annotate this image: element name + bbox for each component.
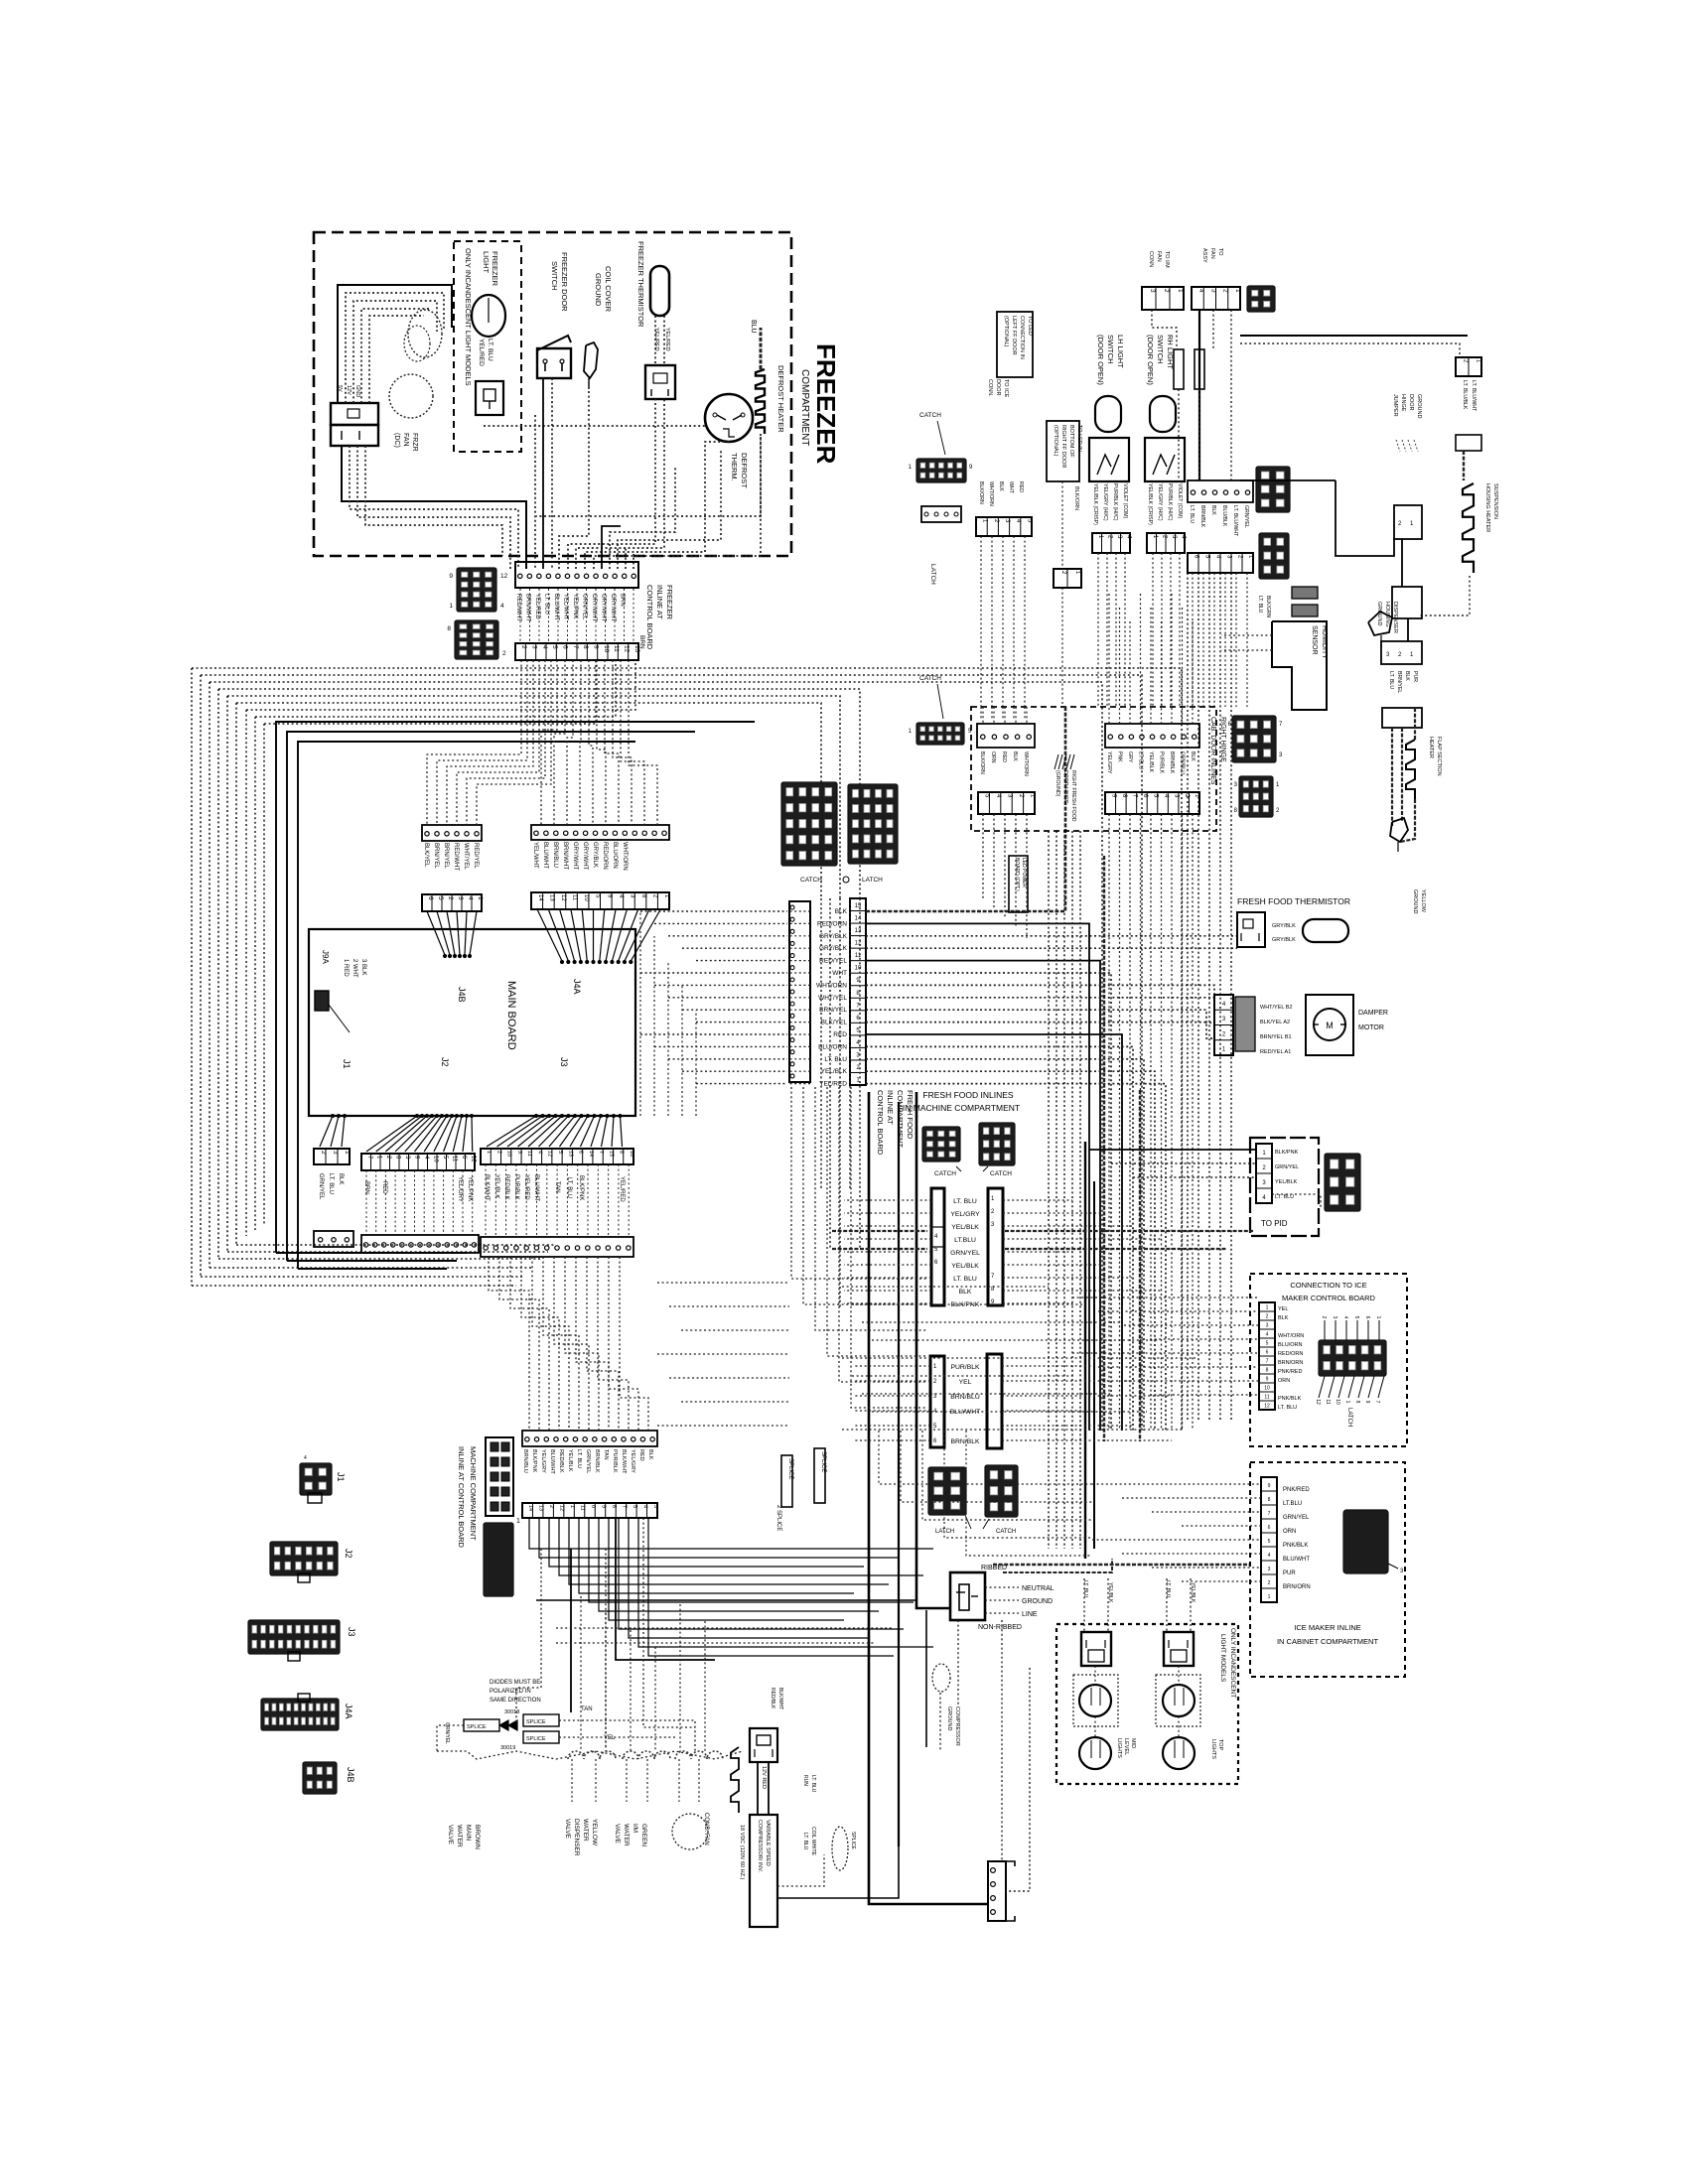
svg-text:WHT/ORN: WHT/ORN — [622, 842, 628, 871]
machine compartment inline dark blob — [484, 1523, 513, 1596]
svg-text:BLK/YEL A2: BLK/YEL A2 — [1260, 1020, 1290, 1025]
wires from switches down — [1097, 553, 1099, 707]
svg-text:J9A: J9A — [321, 950, 330, 964]
svg-text:FRZR: FRZR — [411, 433, 418, 452]
svg-text:5: 5 — [1268, 1539, 1271, 1545]
ground rings dotted tassel — [1396, 440, 1400, 452]
wires inverter to right — [777, 1854, 824, 1886]
svg-text:J4A: J4A — [344, 1704, 353, 1719]
right hinge dark grid lower — [1239, 776, 1273, 817]
svg-text:BLK: BLK — [1278, 1315, 1289, 1321]
dark connector grid top right — [1247, 286, 1275, 312]
svg-text:BLK/ORN: BLK/ORN — [979, 751, 985, 774]
svg-text:YEL/BLK: YEL/BLK — [1107, 1582, 1113, 1603]
wires to valves horizontal zigzag bus — [437, 1751, 743, 1759]
svg-text:BRN/YEL: BRN/YEL — [819, 1007, 847, 1014]
cond fan dotted circle — [672, 1814, 708, 1849]
svg-text:LEFT FF DOOR: LEFT FF DOOR — [1011, 316, 1017, 355]
svg-text:LH LIGHT: LH LIGHT — [1116, 335, 1125, 368]
freezer door latch connector — [921, 506, 961, 522]
svg-text:LT. BLU: LT. BLU — [1138, 751, 1144, 769]
svg-text:4: 4 — [1266, 1331, 1269, 1337]
hatched leads to flap heater — [1391, 728, 1393, 826]
svg-text:18 VDC (120V 60 HZ.): 18 VDC (120V 60 HZ.) — [739, 1825, 745, 1879]
svg-text:WATER: WATER — [623, 1824, 630, 1846]
svg-text:BRN/YEL: BRN/YEL — [433, 843, 439, 869]
svg-text:LIGHTS: LIGHTS — [1116, 1738, 1122, 1758]
svg-text:RED/ORN: RED/ORN — [602, 842, 608, 870]
catch connector grid near power — [985, 1465, 1018, 1517]
svg-text:TO I/M: TO I/M — [1164, 251, 1170, 268]
ribbed line to ice maker box — [993, 1564, 1249, 1566]
svg-text:WHT/YEL: WHT/YEL — [463, 843, 469, 870]
yellow ground clamp bottom right — [1390, 818, 1408, 842]
svg-text:YEL/WHT: YEL/WHT — [532, 842, 538, 869]
right column small connector boxes — [1394, 505, 1422, 539]
svg-text:ORN: ORN — [1278, 1378, 1290, 1384]
svg-text:VIOLET (COM): VIOLET (COM) — [1122, 483, 1128, 519]
svg-text:J2: J2 — [440, 1057, 450, 1067]
J4A pin strip — [531, 825, 669, 840]
svg-text:GRN/YEL: GRN/YEL — [950, 1250, 980, 1257]
ff inlines catch connector grid B — [979, 1123, 1015, 1165]
diode splice assembly — [464, 1719, 499, 1731]
svg-text:MACHINE COMPARTMENT: MACHINE COMPARTMENT — [469, 1446, 478, 1541]
svg-text:5: 5 — [437, 896, 444, 900]
5 pin strip below — [976, 517, 1032, 536]
svg-text:FAN: FAN — [1156, 251, 1162, 262]
svg-text:PUR/BLK: PUR/BLK — [950, 1364, 980, 1371]
svg-text:POLARIZED IN: POLARIZED IN — [490, 1689, 531, 1695]
svg-text:RED: RED — [638, 1449, 644, 1461]
left fresh food door hinge strip lower — [1188, 553, 1253, 573]
svg-text:BRN/BLK: BRN/BLK — [1169, 751, 1175, 774]
svg-text:BOARD (OPT.): BOARD (OPT.) — [1014, 858, 1020, 891]
svg-text:BLK: BLK — [1190, 751, 1196, 761]
machine inline horizontal strip — [522, 1431, 657, 1446]
svg-text:BRN/YEL: BRN/YEL — [1396, 671, 1402, 693]
svg-text:13: 13 — [548, 894, 554, 901]
svg-text:J1: J1 — [342, 1059, 352, 1069]
wires machine inline strip down fanout — [529, 1518, 933, 1549]
wire from splices left — [437, 1725, 464, 1751]
fan winding squiggle — [408, 310, 442, 357]
svg-text:LIGHT: LIGHT — [482, 251, 491, 274]
machine inline lower strip pair right — [987, 1354, 1002, 1448]
left fresh food door hinge strip upper — [1188, 480, 1253, 502]
svg-text:RIGHT FRESH FOOD: RIGHT FRESH FOOD — [1070, 770, 1076, 822]
damper motor box — [1306, 995, 1353, 1055]
svg-text:8: 8 — [1268, 1497, 1271, 1503]
ff inline strip pair left — [931, 1188, 944, 1305]
svg-text:COIL WHITE: COIL WHITE — [810, 1827, 816, 1856]
svg-text:JUMPER: JUMPER — [1392, 394, 1398, 417]
upper bulb left dotted box — [1073, 1675, 1118, 1726]
wires freezer inline to J4B/J4A strips — [427, 660, 521, 825]
svg-text:9: 9 — [449, 573, 453, 580]
svg-text:J4A: J4A — [572, 979, 582, 995]
svg-text:7: 7 — [1266, 1358, 1269, 1364]
svg-text:HINGE: HINGE — [1400, 394, 1406, 412]
svg-text:2: 2 — [1163, 289, 1170, 293]
connector J4A grid — [261, 1699, 339, 1730]
svg-text:GRN/YEL: GRN/YEL — [585, 1449, 591, 1473]
svg-text:YEL/BLK (CRISP): YEL/BLK (CRISP) — [1147, 483, 1153, 525]
svg-text:FRESH FOOD: FRESH FOOD — [906, 1090, 914, 1140]
hatched connectors pair above humidity — [1292, 587, 1318, 599]
freezer inline pin column wires — [519, 589, 521, 643]
svg-text:GREEN: GREEN — [640, 1824, 647, 1846]
svg-text:PUR: PUR — [1283, 1570, 1296, 1576]
freezer inline at control board pin strip — [515, 562, 638, 588]
suspension housing heater leads — [1463, 451, 1465, 480]
wire web diagonal steps lower center — [879, 1431, 1092, 1484]
svg-text:1: 1 — [449, 603, 453, 610]
svg-text:FREEZER DOOR: FREEZER DOOR — [560, 252, 569, 312]
svg-text:DOOR: DOOR — [995, 379, 1001, 396]
svg-text:CATCH: CATCH — [800, 877, 822, 884]
LH switch pin strip — [1092, 533, 1130, 553]
svg-text:GRN/YEL: GRN/YEL — [1283, 1515, 1310, 1521]
svg-text:TOP: TOP — [1217, 1739, 1223, 1751]
svg-text:RIGHT FF DOOR: RIGHT FF DOOR — [1060, 425, 1066, 468]
right column lower connector box — [1382, 708, 1422, 728]
second freezer catch connector — [916, 723, 964, 745]
svg-text:CAB. DOOR INLINES: CAB. DOOR INLINES — [1209, 717, 1216, 785]
svg-text:YEL/GRY: YEL/GRY — [1106, 751, 1112, 774]
freezer fan motor connector FRZR FAN (DC) — [331, 403, 378, 425]
svg-text:BLK/ORN: BLK/ORN — [1073, 486, 1079, 510]
extra freezer harness drops — [610, 467, 675, 569]
svg-text:BLU/WHT: BLU/WHT — [549, 1449, 555, 1474]
J3 lower pin strip — [481, 1237, 633, 1257]
J4A numbered strip — [531, 892, 669, 909]
svg-text:CONN: CONN — [1148, 251, 1154, 267]
svg-text:VALVE: VALVE — [564, 1819, 571, 1840]
svg-text:CATCH: CATCH — [934, 1170, 956, 1177]
svg-text:LATCH: LATCH — [862, 877, 883, 884]
svg-text:SPLICE: SPLICE — [787, 1458, 793, 1479]
svg-text:11: 11 — [572, 894, 578, 901]
svg-text:1: 1 — [344, 1151, 351, 1155]
wire to lt blu connector top right — [1240, 335, 1468, 337]
svg-text:11: 11 — [1325, 1399, 1331, 1404]
svg-text:COMPRESSOR/ INV.: COMPRESSOR/ INV. — [757, 1820, 763, 1872]
2x3 dark grid left door — [1256, 467, 1290, 512]
svg-text:WATER: WATER — [582, 1819, 589, 1842]
svg-text:FREEZER: FREEZER — [811, 343, 841, 465]
svg-text:8: 8 — [1266, 1367, 1269, 1373]
trunk verticals right of center going down — [1187, 573, 1189, 1420]
J4A fan-out wires to board — [537, 909, 562, 961]
svg-text:5: 5 — [1266, 1340, 1269, 1346]
svg-text:SPLICE: SPLICE — [526, 1719, 546, 1725]
svg-text:9: 9 — [593, 645, 600, 649]
svg-text:HOUSING: HOUSING — [1384, 602, 1390, 627]
J2 numbered strip — [361, 1154, 475, 1170]
svg-text:ASSY: ASSY — [1201, 248, 1207, 263]
freezer thermistor connector — [645, 365, 675, 399]
main board outline — [309, 929, 635, 1116]
svg-text:PNK/RED: PNK/RED — [1278, 1369, 1302, 1375]
svg-text:BLK/YEL: BLK/YEL — [821, 1020, 848, 1026]
svg-text:WHT: WHT — [1008, 481, 1014, 494]
svg-text:LATCH: LATCH — [1346, 1408, 1352, 1427]
svg-text:PNK: PNK — [1117, 751, 1123, 762]
svg-text:FRESH FOOD THERMISTOR: FRESH FOOD THERMISTOR — [1237, 896, 1350, 906]
svg-text:SPLICE: SPLICE — [820, 1451, 826, 1472]
TO LED CONNECTION box — [997, 312, 1033, 377]
J3 numbered strip — [481, 1149, 633, 1164]
svg-text:LEVEL: LEVEL — [1123, 1738, 1129, 1755]
svg-text:12: 12 — [470, 1156, 476, 1162]
svg-text:FREEZER: FREEZER — [491, 251, 499, 287]
svg-text:12V: 12V — [346, 385, 352, 395]
compressor plug connector — [750, 1728, 777, 1762]
svg-text:8: 8 — [447, 625, 451, 632]
svg-text:WHT/ORN: WHT/ORN — [1278, 1333, 1304, 1339]
svg-text:YEL/BLK (CRISP): YEL/BLK (CRISP) — [1092, 483, 1098, 525]
wire defrost heater bottom lead — [536, 434, 761, 516]
J4B numbered strip — [422, 894, 482, 911]
power cord connector — [950, 1572, 985, 1620]
svg-text:GRY/BLK: GRY/BLK — [819, 945, 848, 952]
svg-text:PUR/BLK: PUR/BLK — [1159, 751, 1165, 774]
svg-text:MAKER CONTROL BOARD: MAKER CONTROL BOARD — [1282, 1294, 1375, 1302]
humidity sensor box — [1272, 621, 1327, 710]
svg-text:GRN/YEL: GRN/YEL — [444, 1722, 450, 1744]
label GROUND — [985, 1599, 1019, 1601]
svg-text:TAN: TAN — [581, 1706, 593, 1712]
wires power area down — [1001, 1620, 1003, 1861]
svg-text:1: 1 — [516, 1518, 520, 1525]
svg-text:1: 1 — [1268, 1594, 1271, 1600]
suspension heater connector — [1456, 435, 1481, 451]
wires into ice maker connection from left — [1072, 1297, 1259, 1298]
connection to ice maker control board dashed box — [1250, 1274, 1407, 1446]
svg-text:1: 1 — [477, 896, 484, 900]
svg-text:BRN/BLU: BRN/BLU — [552, 842, 558, 868]
svg-text:BLU/WHT: BLU/WHT — [542, 842, 548, 869]
svg-text:2: 2 — [447, 896, 454, 900]
svg-text:YEL/BLK: YEL/BLK — [493, 1174, 499, 1198]
svg-text:2: 2 — [1266, 1313, 1269, 1319]
LH light switch body — [1089, 438, 1129, 481]
svg-text:GRY/WHT: GRY/WHT — [582, 842, 588, 871]
svg-text:6: 6 — [1268, 1525, 1271, 1531]
svg-text:J2: J2 — [344, 1549, 353, 1559]
wires into ff inline strips — [844, 1199, 931, 1201]
svg-text:PUR: PUR — [1412, 671, 1418, 682]
right hinge left strip upper — [977, 724, 1035, 748]
svg-text:LT. BLU: LT. BLU — [576, 1449, 582, 1468]
svg-text:10: 10 — [855, 966, 862, 972]
svg-text:1: 1 — [1234, 289, 1241, 293]
svg-text:I/M: I/M — [632, 1824, 638, 1833]
ice maker connection strip — [1259, 1302, 1275, 1410]
connector 2 1 top right — [1456, 357, 1481, 376]
svg-text:3: 3 — [652, 1505, 658, 1508]
LED power board optional box — [1009, 856, 1028, 912]
J1 fan-out from board bottom — [320, 1116, 333, 1147]
svg-text:BLK/GRN: BLK/GRN — [1265, 596, 1271, 617]
svg-text:10: 10 — [603, 645, 610, 653]
TO PID strip — [1256, 1144, 1272, 1203]
svg-text:WATER: WATER — [456, 1825, 463, 1847]
J3 fan-out from board bottom — [487, 1116, 536, 1147]
svg-text:GROUND: GROUND — [1022, 1598, 1053, 1605]
dispenser housing ground clamp — [1368, 612, 1392, 635]
svg-text:3: 3 — [1332, 1316, 1337, 1319]
svg-text:10: 10 — [1335, 1399, 1340, 1405]
lights internal wires — [1094, 1666, 1096, 1685]
svg-text:8: 8 — [582, 645, 589, 649]
svg-text:6: 6 — [427, 896, 434, 900]
svg-text:3 BLK: 3 BLK — [360, 959, 366, 975]
svg-text:LT.BLU: LT.BLU — [1283, 1501, 1302, 1507]
svg-text:J4B: J4B — [346, 1767, 355, 1783]
svg-text:LT. BLU: LT. BLU — [328, 1173, 334, 1194]
upper bulb left — [1079, 1685, 1111, 1716]
svg-text:VALVE: VALVE — [614, 1824, 621, 1844]
svg-text:12: 12 — [1264, 1403, 1270, 1409]
svg-text:LT. BLU: LT. BLU — [1275, 1194, 1294, 1200]
svg-text:GRY/BLK: GRY/BLK — [1272, 923, 1296, 929]
lights dashed box only incandescent — [1056, 1624, 1238, 1784]
connector J3 grid — [248, 1620, 340, 1654]
svg-text:GRN/BLU: GRN/BLU — [1180, 751, 1186, 774]
label NEUTRAL — [985, 1586, 1019, 1588]
svg-text:YEL/BLK: YEL/BLK — [1275, 1179, 1298, 1185]
coil cover ground clamp — [584, 342, 598, 378]
right fresh food door hinge ground — [1064, 707, 1067, 752]
svg-text:DOOR HINGE: DOOR HINGE — [1062, 770, 1068, 804]
svg-text:LT. BLU: LT. BLU — [953, 1198, 977, 1205]
svg-text:YEL/RED: YEL/RED — [534, 594, 540, 619]
wire defrost therm to light dotted — [484, 425, 705, 427]
J4B fan-out wires to board — [427, 911, 445, 955]
machine inline lower strip pair left — [930, 1356, 944, 1447]
svg-text:LT. BLU: LT. BLU — [953, 1276, 977, 1283]
svg-text:GRN/YEL: GRN/YEL — [318, 1173, 324, 1200]
svg-text:NEUTRAL: NEUTRAL — [1022, 1585, 1055, 1592]
svg-text:BRN/BLK: BRN/BLK — [594, 1449, 600, 1473]
svg-text:YEL/GRY: YEL/GRY — [540, 1449, 546, 1473]
wire dotted down to connector — [1006, 1668, 1030, 1891]
svg-text:BLK/PNK: BLK/PNK — [1275, 1150, 1299, 1156]
wires into lights box — [1083, 1578, 1085, 1632]
svg-text:1: 1 — [1177, 289, 1184, 293]
freezer loop wires lower nest — [342, 446, 526, 569]
svg-text:GRY: GRY — [1127, 751, 1133, 763]
svg-text:COMPARTMENT: COMPARTMENT — [896, 1090, 905, 1148]
valve coil row — [568, 1751, 616, 1759]
J2 label column wires — [365, 1170, 367, 1235]
svg-text:SENSOR: SENSOR — [1311, 625, 1318, 655]
svg-text:CONNECTION IN: CONNECTION IN — [1019, 316, 1025, 359]
wire compressor connector down to inverter — [757, 1762, 759, 1815]
label LINE — [985, 1612, 1019, 1614]
svg-text:SUSPENSION: SUSPENSION — [1492, 483, 1498, 519]
svg-text:LT. BLU/WHT: LT. BLU/WHT — [1471, 380, 1477, 412]
svg-text:LT. BLU/BLK: LT. BLU/BLK — [1462, 380, 1468, 410]
left harness nested loop wires — [192, 668, 1182, 1431]
J4B pin strip — [422, 825, 482, 841]
svg-text:YELLOW: YELLOW — [1420, 889, 1426, 913]
connector 4 3 2 1 to fan assy — [1192, 287, 1240, 310]
upper bulb right — [1163, 1685, 1195, 1716]
svg-text:HOUSING HEATER: HOUSING HEATER — [1484, 483, 1490, 532]
svg-text:7: 7 — [572, 645, 579, 649]
svg-text:VARIABLE SPEED: VARIABLE SPEED — [765, 1820, 771, 1866]
svg-text:GRN/YEL: GRN/YEL — [1275, 1164, 1299, 1170]
svg-text:BLK/ORN: BLK/ORN — [978, 481, 984, 504]
svg-text:RED/ORN: RED/ORN — [1278, 1351, 1303, 1357]
svg-text:RED: RED — [1018, 481, 1024, 492]
svg-text:10: 10 — [1264, 1385, 1270, 1391]
wires between right column boxes — [1401, 539, 1403, 587]
ff inlines catch connector grid A — [922, 1127, 960, 1161]
svg-text:BLK: BLK — [1012, 751, 1018, 761]
svg-text:INLINE AT: INLINE AT — [886, 1090, 895, 1125]
svg-text:CATCH: CATCH — [996, 1529, 1016, 1535]
svg-text:BLU/ORN: BLU/ORN — [612, 842, 618, 869]
svg-text:2 WHT: 2 WHT — [352, 959, 357, 978]
svg-text:FREEZER THERMISTOR: FREEZER THERMISTOR — [636, 241, 645, 328]
svg-text:FLAP SECTION: FLAP SECTION — [1436, 737, 1442, 776]
svg-text:CATCH: CATCH — [919, 675, 941, 682]
machine inline numbered strip — [522, 1503, 657, 1518]
svg-text:12: 12 — [560, 894, 566, 901]
svg-text:3: 3 — [531, 645, 538, 649]
svg-text:11: 11 — [613, 645, 620, 652]
small inline connectors pair — [1174, 349, 1184, 389]
svg-text:WHT/ORN: WHT/ORN — [988, 481, 994, 506]
svg-text:SWITCH: SWITCH — [1106, 335, 1115, 364]
svg-text:BLK/WHT: BLK/WHT — [777, 1688, 783, 1709]
svg-text:YEL/BLK: YEL/BLK — [951, 1224, 979, 1231]
svg-text:LT. BLU/WHT: LT. BLU/WHT — [1232, 505, 1238, 537]
svg-text:RIGHT HINGE: RIGHT HINGE — [1219, 717, 1226, 762]
svg-text:4: 4 — [541, 645, 548, 649]
svg-text:LT. BLU: LT. BLU — [1189, 505, 1195, 523]
wires freezer components down to inline connector — [534, 415, 536, 569]
wires from 5 pin strip down — [980, 536, 982, 707]
svg-text:SPLICE: SPLICE — [850, 1832, 856, 1849]
center trunk vertical wires — [820, 898, 822, 1188]
svg-text:12: 12 — [1315, 1399, 1321, 1405]
svg-text:YEL/GRY (HI/C): YEL/GRY (HI/C) — [1157, 483, 1163, 521]
svg-text:LINE: LINE — [1022, 1611, 1038, 1618]
freezer door switch body — [537, 348, 571, 378]
svg-text:LT. BLU: LT. BLU — [1257, 596, 1263, 614]
svg-text:SPLICE: SPLICE — [526, 1736, 546, 1742]
RH light switch body — [1145, 438, 1185, 481]
TO LED bottom right box — [1047, 421, 1079, 481]
svg-text:MID: MID — [1130, 1738, 1136, 1748]
svg-text:30018: 30018 — [504, 1709, 519, 1715]
freezer thermistor capsule — [650, 266, 669, 316]
svg-text:3: 3 — [457, 896, 464, 900]
svg-text:RED: RED — [381, 1181, 387, 1194]
svg-text:BRN/YEL: BRN/YEL — [443, 843, 449, 869]
freezer door switch lever — [537, 336, 571, 350]
svg-text:COMPRESSOR: COMPRESSOR — [954, 1706, 960, 1746]
freezer light socket connector — [476, 381, 503, 415]
svg-text:DIODES MUST BE: DIODES MUST BE — [490, 1680, 540, 1686]
svg-text:LT. BLU: LT. BLU — [1165, 1580, 1171, 1598]
svg-text:FRESH FOOD INLINES: FRESH FOOD INLINES — [922, 1090, 1013, 1100]
